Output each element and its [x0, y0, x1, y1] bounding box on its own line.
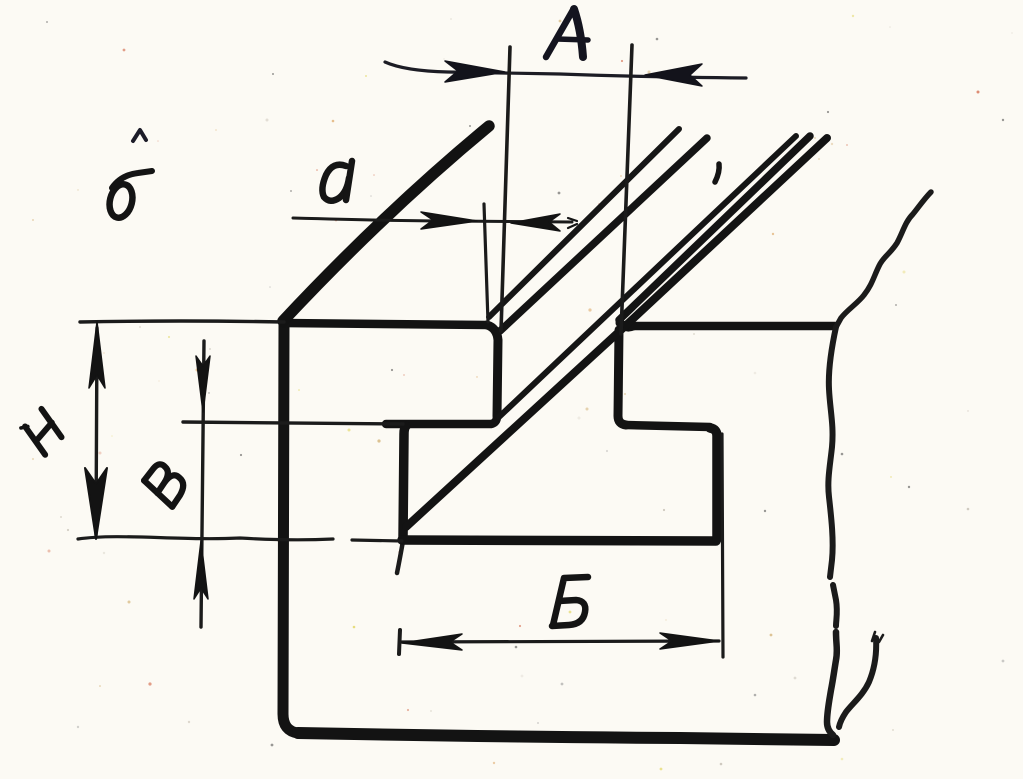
torn edge segment 2 — [833, 585, 837, 626]
B(big) right arrow — [660, 633, 719, 649]
cavity bottom — [402, 540, 716, 541]
label b(small) — [106, 171, 152, 220]
extension line a-left — [484, 204, 488, 322]
slot bottom-right ledge — [626, 425, 710, 427]
dimension A line — [385, 62, 746, 78]
block left edge — [283, 324, 298, 733]
label B(big) — [552, 577, 588, 626]
H dimension bottom arrow — [85, 468, 107, 539]
H bottom extension line right part — [352, 540, 402, 541]
receding edge from slot-left wall bottom (long) — [499, 136, 796, 417]
torn branch fork — [872, 632, 883, 642]
small comma mark — [715, 164, 719, 182]
extension line A-right — [621, 45, 632, 334]
B(big) left arrow — [402, 634, 462, 650]
H top extension line — [80, 321, 284, 322]
B dimension top arrow (down) — [196, 356, 210, 412]
label B rotated — [141, 461, 189, 507]
dimension A left arrow — [445, 61, 505, 82]
slot right wall — [618, 330, 626, 425]
receding edge R2 thin from top-face slot-left rim — [489, 129, 679, 317]
label a — [322, 161, 352, 201]
receding edge R3 from slot-left wall top — [500, 138, 707, 331]
slot right corner blob — [620, 323, 633, 327]
cavity left wall — [403, 426, 406, 539]
receding edge R1 top-left — [283, 126, 489, 321]
cavity left wall overshoot — [397, 541, 403, 573]
H dimension top arrow — [89, 322, 105, 388]
H bottom extension line (wavy) — [78, 537, 333, 540]
B(big) left tick — [399, 630, 400, 654]
torn edge segment 3 — [827, 632, 837, 735]
dimension a left arrow — [421, 212, 477, 229]
dimension a line — [293, 218, 572, 222]
small caret above b — [133, 130, 146, 141]
receding edge T3 long from cavity bottom-left corner — [406, 138, 827, 527]
extension line A-left — [501, 47, 510, 331]
H dimension vertical line — [96, 328, 97, 535]
cavity right wall — [710, 428, 717, 539]
B dimension vertical line — [201, 341, 204, 627]
B dimension bottom arrow (up) — [194, 541, 208, 599]
torn edge upper diagonal — [836, 192, 931, 327]
torn edge right vertical — [828, 327, 836, 577]
receding edge T2 from slot-right corner — [619, 136, 810, 320]
slot left wall — [487, 325, 498, 416]
label A — [546, 9, 588, 57]
top face right segment — [630, 322, 835, 331]
extension line B(big)-right — [722, 434, 723, 657]
dimension A right arrow — [645, 64, 702, 86]
slot bottom-left ledge — [386, 416, 497, 424]
dimension B(big) line — [402, 641, 719, 642]
torn edge branch — [839, 638, 876, 727]
label H rotated — [19, 408, 66, 455]
dimension a right arrow — [511, 214, 560, 231]
B top extension line — [183, 422, 403, 424]
top face left segment — [283, 323, 487, 325]
a tail fork — [568, 218, 577, 228]
block bottom edge — [298, 733, 834, 740]
